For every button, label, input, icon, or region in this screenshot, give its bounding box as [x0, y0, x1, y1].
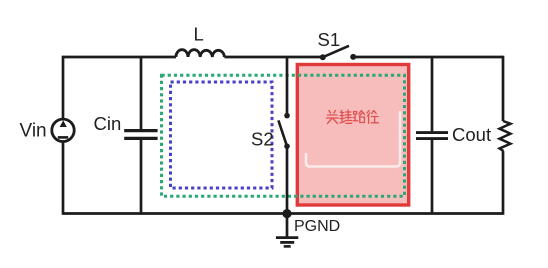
- load resistor: [500, 121, 511, 151]
- wire: top rail right segment (S1 right contact to top-right corner): [353, 56, 503, 59]
- wire: S2 branch upper (top rail to S2): [286, 57, 289, 116]
- wire: left rail above Vin source: [62, 56, 65, 120]
- capacitor Cout: [416, 133, 448, 139]
- switch S2: [278, 113, 289, 149]
- wire: top rail left segment (Vin corner to S1 left contact): [63, 56, 176, 59]
- green dashed loop (outer path): [162, 75, 405, 196]
- switch S1: [320, 46, 356, 60]
- wire: Cin branch lower: [140, 140, 143, 214]
- junction node at PGND: [282, 209, 291, 218]
- ground PGND: [276, 214, 298, 247]
- label 关键路径 (critical path, drawn strokes): [327, 110, 379, 124]
- red highlighted critical-path region: [297, 65, 408, 206]
- wire: right rail below load resistor: [502, 151, 505, 215]
- wire: Cout branch upper: [431, 57, 434, 131]
- wire: left rail below Vin source: [62, 141, 65, 215]
- wire: Cout branch lower: [431, 140, 434, 214]
- svg-text:S2: S2: [251, 129, 274, 150]
- voltage source Vin: [52, 119, 74, 141]
- wire: Cin branch upper: [140, 57, 143, 129]
- wire: top rail between inductor and S1: [224, 56, 322, 59]
- svg-text:Cout: Cout: [452, 124, 491, 145]
- svg-text:Vin: Vin: [20, 121, 47, 142]
- svg-text:PGND: PGND: [294, 218, 340, 235]
- blue dashed loop (inner path): [171, 82, 273, 188]
- svg-text:S1: S1: [318, 29, 341, 50]
- svg-text:L: L: [194, 24, 204, 45]
- inductor L: [176, 50, 225, 57]
- svg-text:Cin: Cin: [94, 113, 122, 134]
- capacitor Cin: [124, 131, 157, 139]
- wire: S2 branch lower (S2 to bottom rail): [286, 146, 289, 213]
- wire: bottom rail: [63, 212, 503, 215]
- white highlight trace inside red region: [306, 111, 400, 167]
- wire: right rail above load resistor: [502, 56, 505, 121]
